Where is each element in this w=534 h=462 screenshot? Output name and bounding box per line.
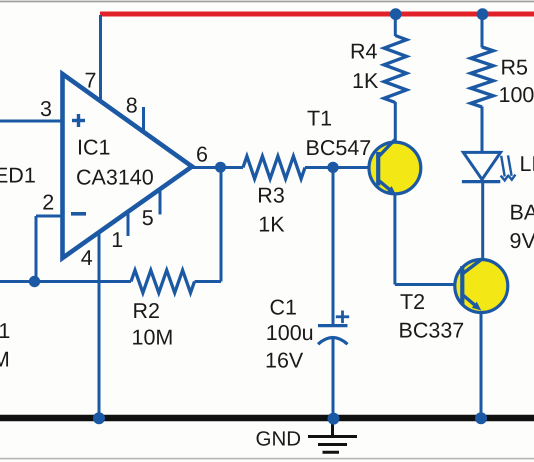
junction dot ground rail T2 [475,412,487,424]
svg-text:5: 5 [142,206,154,230]
junction dot ground rail C1 [328,413,340,425]
svg-text:9V: 9V [510,229,534,253]
svg-text:GND: GND [256,428,302,451]
pin 8 stub [142,107,145,132]
svg-text:R2: R2 [133,299,160,323]
svg-text:100u: 100u [266,321,314,345]
wire pin3 input [0,120,62,123]
wire T1 emitter down [393,194,396,285]
LED cathode bar [462,180,500,183]
svg-text:LED2: LED2 [520,152,534,176]
svg-text:BATT.: BATT. [510,201,534,225]
svg-text:IC1: IC1 [77,136,110,160]
transistor Q1 T1 BC547 body [369,142,421,194]
svg-text:16V: 16V [265,349,304,373]
bottom border line [0,458,534,460]
LED D2 triangle (anode) [463,152,500,179]
wire pin2 down to feedback node [35,216,38,282]
wire rail to R5 [481,14,484,48]
svg-text:1: 1 [111,228,123,252]
resistor R2 10M [131,270,195,293]
T2 base bar [460,266,464,305]
junction dot on rail at R5 [477,8,489,20]
wire rail to R4 [394,14,397,36]
svg-text:1K: 1K [352,69,379,93]
svg-text:100: 100 [499,83,534,107]
svg-text:7: 7 [85,69,97,93]
capacitor C1 polarity plus [336,311,349,324]
T2 emitter arrowhead [472,302,481,311]
wire T1 emitter to T2 base [395,283,462,286]
wire base node down to C1 [332,168,335,326]
svg-text:R5: R5 [501,56,529,80]
transistor Q2 T2 BC337 body [455,260,508,313]
svg-text:R3: R3 [257,184,285,208]
op-amp minus input marking [71,212,86,216]
capacitor C1 curved bottom plate [318,338,348,345]
svg-text:6: 6 [196,143,208,167]
ground rail (black) [0,415,534,422]
svg-text:R4: R4 [350,40,378,64]
junction dot on rail at R4 [390,8,402,20]
wire R4 to T1 collector [394,102,397,141]
wire C1 to ground rail [332,339,335,418]
capacitor C1 top plate [318,324,348,327]
op-amp U1 IC1 CA3140 triangle [63,74,193,258]
svg-text:T2: T2 [400,290,425,314]
T1 emitter arrowhead [387,186,396,195]
svg-text:C1: C1 [270,296,297,320]
pin 5 stub [159,190,162,215]
svg-text:10M: 10M [0,348,10,372]
wire R2 right to corner [195,280,222,283]
LED light arrow 1 [501,156,509,181]
T2 emitter stroke [462,295,476,307]
resistor R5 100 [471,47,494,107]
svg-text:R1: R1 [0,319,10,343]
junction dot ground rail pin4 [93,412,105,424]
svg-text:2: 2 [42,190,54,214]
op-amp plus input marking [72,114,85,127]
ground symbol [308,421,357,452]
wire pin2 input [36,215,62,218]
svg-text:1K: 1K [258,213,285,237]
wire pin4 to ground rail [98,232,101,418]
resistor R3 1K [243,156,305,179]
junction dot output node [215,162,226,173]
pin 1 stub [127,212,130,236]
wire T2 emitter to ground rail [480,311,483,418]
wire pin7 to supply rail [99,15,102,102]
junction dot T1 base node [327,162,338,173]
T1 emitter stroke [378,180,392,192]
wire R3 to T1 base [305,166,378,169]
T1 base bar [376,152,380,186]
svg-text:BC337: BC337 [399,319,465,343]
svg-text:4: 4 [81,246,93,270]
T1 collector stroke [378,140,395,158]
svg-text:3: 3 [40,97,52,121]
svg-text:10M: 10M [132,326,174,350]
svg-text:BC547: BC547 [306,136,372,160]
T2 collector stroke [462,259,482,274]
wire R5 to LED anode [481,107,484,153]
junction dot feedback node [29,276,40,287]
svg-text:8: 8 [126,94,138,118]
resistor R4 1K [384,36,407,103]
wire feedback left segment [0,280,131,283]
svg-text:T1: T1 [307,107,332,131]
wire op-amp output to R3 [192,166,243,169]
svg-text:CA3140: CA3140 [76,165,154,189]
top border line [0,1,534,3]
wire feedback vertical to output [220,168,223,282]
wire LED cathode to T2 collector [481,182,484,260]
LED light arrow 2 [508,155,516,179]
V+ supply rail (red) [100,12,534,17]
svg-text:LED1: LED1 [0,164,36,188]
